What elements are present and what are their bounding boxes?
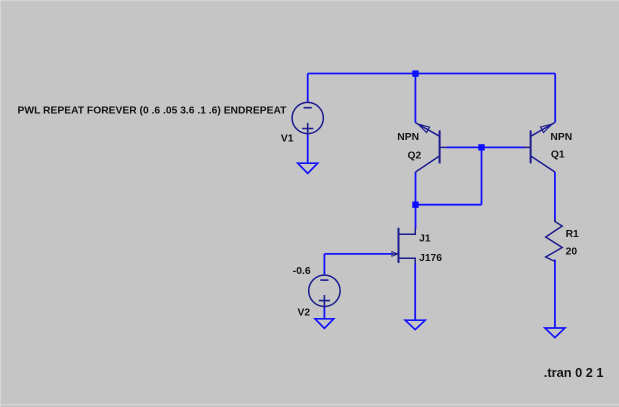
svg-text:Q1: Q1 — [551, 149, 565, 160]
svg-text:NPN: NPN — [550, 132, 572, 143]
svg-text:Q2: Q2 — [408, 151, 422, 162]
svg-text:J1: J1 — [419, 234, 431, 245]
svg-text:20: 20 — [566, 246, 578, 257]
svg-text:V1: V1 — [281, 134, 294, 145]
svg-text:J176: J176 — [419, 253, 442, 264]
svg-text:.tran 0 2 1: .tran 0 2 1 — [544, 365, 604, 380]
svg-text:NPN: NPN — [397, 132, 419, 143]
svg-text:V2: V2 — [298, 308, 311, 319]
svg-text:-0.6: -0.6 — [293, 266, 311, 277]
svg-text:R1: R1 — [566, 229, 579, 240]
svg-text:PWL REPEAT FOREVER (0 .6 .05 3: PWL REPEAT FOREVER (0 .6 .05 3.6 .1 .6) … — [18, 105, 288, 116]
